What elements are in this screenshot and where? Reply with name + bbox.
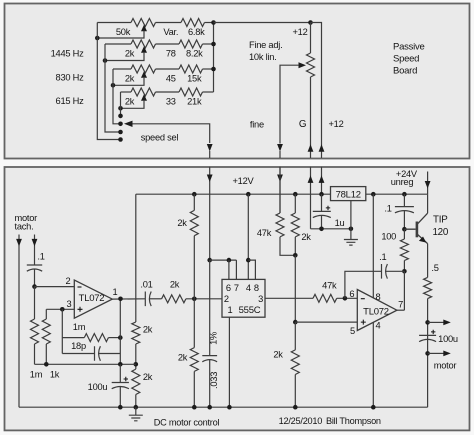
- node switch contact row1: [118, 137, 123, 142]
- wire row4 left end: [121, 91, 132, 93]
- wire fine line through rail to 47k: [279, 167, 281, 213]
- node pin3 feedback tap: [60, 307, 65, 312]
- wire 100u top lead: [119, 364, 121, 382]
- svg-text:830 Hz: 830 Hz: [56, 73, 85, 83]
- svg-text:.033: .033: [209, 372, 219, 389]
- svg-text:615 Hz: 615 Hz: [56, 96, 85, 106]
- node pot top: [308, 20, 313, 25]
- svg-text:33: 33: [166, 97, 176, 107]
- wire tach signal line: [34, 235, 36, 266]
- capacitor .033 timing: [202, 356, 217, 362]
- svg-text:2k: 2k: [177, 218, 187, 228]
- wire 2k pull-down bottom: [193, 371, 195, 407]
- node row4 wiper joins left end: [118, 106, 123, 111]
- svg-text:2k: 2k: [143, 324, 153, 334]
- potentiometer row1 wiper arrow: [141, 25, 147, 32]
- wire G from pot bottom: [310, 77, 312, 158]
- svg-text:.1: .1: [379, 252, 386, 262]
- wire ground link line: [311, 228, 351, 230]
- svg-text:TL072: TL072: [363, 306, 389, 317]
- svg-text:2k: 2k: [273, 350, 283, 360]
- svg-text:2k: 2k: [125, 49, 135, 59]
- wire output down stub to lower node: [119, 299, 121, 365]
- svg-text:100u: 100u: [88, 382, 108, 392]
- svg-text:1m: 1m: [30, 369, 43, 379]
- node pins 4/8 link: [246, 258, 251, 263]
- wire node down to pin5 line: [294, 255, 296, 322]
- node rail at 2k pullup: [192, 192, 197, 197]
- node 78L12 gnd at ground link: [349, 227, 354, 232]
- svg-text:47k: 47k: [322, 280, 337, 290]
- op-amp2 plus sign: [361, 320, 366, 325]
- wire lower node line: [35, 363, 136, 365]
- wire right bus joining all rows: [213, 23, 215, 93]
- wire 78L12 gnd pin: [350, 201, 352, 229]
- arrow fine into lower board: [277, 175, 283, 183]
- svg-text:6: 6: [226, 283, 231, 293]
- arrow motor + out: [443, 320, 451, 326]
- wire 555 pin3 out: [265, 297, 313, 299]
- node output stub at lower line: [118, 362, 123, 367]
- wire speed-sel into lower board: [209, 167, 211, 260]
- wire 1k top: [45, 309, 47, 319]
- wire 1m feedback right lead: [108, 337, 120, 339]
- wire 1m top: [34, 287, 36, 319]
- wire 2k pull-up bottom: [193, 236, 195, 299]
- svg-text:1k: 1k: [50, 369, 60, 379]
- node gnd main ground: [134, 405, 139, 410]
- svg-text:555C: 555C: [239, 305, 261, 316]
- arrow tach ground input: [16, 239, 22, 247]
- node 47k/2k junction: [293, 253, 298, 258]
- potentiometer 10k fine adj: [307, 53, 315, 77]
- wire row3 right end: [203, 68, 214, 70]
- svg-text:21k: 21k: [187, 97, 202, 107]
- wire .1 top lead: [403, 194, 405, 206]
- node pin5 tap: [293, 320, 298, 325]
- resistor 47k series: [313, 294, 337, 302]
- wire 2k to 555 pin2: [186, 298, 222, 300]
- svg-text:8.2k: 8.2k: [186, 49, 203, 59]
- svg-text:+12: +12: [328, 119, 343, 129]
- resistor 1m feedback: [84, 334, 108, 342]
- wire motor - tap: [428, 352, 444, 354]
- wire row4 middle segment: [156, 91, 180, 93]
- wire row1 left end: [97, 22, 131, 24]
- node bus row1: [211, 20, 216, 25]
- node speed-sel at pins 6/7 link: [207, 258, 212, 263]
- wire left divider bottom: [135, 395, 137, 408]
- svg-text:3: 3: [67, 299, 72, 309]
- svg-text:7: 7: [398, 299, 403, 309]
- node gnd 2k pin5: [293, 405, 298, 410]
- node bus row3: [211, 67, 216, 72]
- svg-text:5: 5: [350, 326, 355, 336]
- plus mark of 1u: [326, 206, 330, 210]
- svg-text:Board: Board: [393, 66, 417, 77]
- wire 78L12 input from +24V: [366, 193, 428, 195]
- svg-text:.1: .1: [37, 251, 44, 261]
- resistor 2k from rail: [291, 213, 299, 237]
- wire row1 middle segment: [156, 22, 182, 24]
- wire .033 bottom: [209, 360, 211, 407]
- svg-text:+12: +12: [292, 27, 307, 37]
- capacitor 100u (op-amp1 ground net): [112, 383, 129, 389]
- resistor 47k from fine: [276, 213, 284, 237]
- wire 555 pin1 to ground: [228, 317, 230, 407]
- node +24 at output chain: [402, 192, 407, 197]
- svg-text:fine: fine: [250, 119, 264, 129]
- wire 2k below pin5 top: [294, 322, 296, 350]
- wire fine to board edge: [279, 151, 281, 158]
- switch speed-sel wiper arrow: [124, 121, 133, 127]
- node rail at 555 pins 4/8: [246, 192, 251, 197]
- transistor Q1 TIP120 base bar: [416, 222, 419, 238]
- wire 47k to pin6 of op-amp2: [337, 297, 358, 299]
- wire row4 right end: [203, 91, 214, 93]
- node gnd 555 pin1: [227, 405, 232, 410]
- arrow G up to upper board: [308, 175, 314, 183]
- node transistor base: [402, 227, 407, 232]
- svg-text:.01: .01: [140, 279, 152, 289]
- arrow fine leaving board (down): [277, 144, 283, 152]
- node motor -: [425, 351, 430, 356]
- arrow fine-adj wiper: [299, 62, 307, 68]
- resistor 2k upper of left divider: [132, 322, 140, 344]
- wire .01 to 2k: [149, 298, 161, 300]
- node switch contact row4: [118, 114, 123, 119]
- wire pin3 input: [46, 308, 74, 310]
- node row2 wiper joins left end: [103, 58, 108, 63]
- svg-text:3: 3: [258, 294, 263, 304]
- svg-text:7: 7: [234, 283, 239, 293]
- node switch contact row2: [118, 130, 123, 135]
- svg-text:+12V: +12V: [233, 176, 255, 186]
- wire row2 vertical to switch contact: [105, 44, 121, 132]
- wire op-amp2 pin4 to ground: [372, 322, 374, 407]
- wire left divider mid: [135, 344, 137, 369]
- node 1u at ground link: [319, 227, 324, 232]
- wire row4 wiper stem: [121, 100, 145, 108]
- node motor +: [425, 320, 430, 325]
- wire 1m feedback left lead: [62, 337, 84, 339]
- resistor 2k lower of left divider: [132, 369, 140, 394]
- svg-text:6: 6: [349, 289, 354, 299]
- resistor 2k below pin5: [291, 350, 299, 375]
- wire 2k pull-up top: [193, 194, 195, 210]
- wire fine into lower board: [279, 167, 281, 213]
- wire fine wiper to fine line: [280, 65, 299, 143]
- svg-text:2k: 2k: [125, 97, 135, 107]
- wire 2k bottom to node: [294, 237, 296, 255]
- node rail at +12 line: [319, 192, 324, 197]
- op-amp1 plus sign: [78, 307, 83, 312]
- wire .033 line down: [209, 260, 211, 356]
- svg-text:8: 8: [254, 283, 259, 293]
- wire feedback from pin6 up: [345, 271, 382, 298]
- svg-text:1u: 1u: [335, 218, 345, 228]
- node bus row2: [211, 42, 216, 47]
- svg-text:100u: 100u: [438, 334, 458, 344]
- svg-text:2k: 2k: [301, 232, 311, 242]
- regulator U3 78L12: [331, 187, 366, 201]
- wire +12 right segment to border: [321, 144, 323, 158]
- arrow +12 entering board (up): [319, 144, 325, 152]
- wire ground rail: [19, 406, 428, 408]
- resistor 15k row3: [179, 65, 203, 73]
- wire pin8 link: [248, 260, 255, 279]
- op-amp2 minus sign: [361, 298, 365, 300]
- wire collector to +24: [427, 194, 429, 213]
- node op-amp1 output: [118, 297, 123, 302]
- svg-text:speed sel: speed sel: [141, 133, 179, 143]
- svg-text:2k: 2k: [143, 372, 153, 382]
- svg-text:8: 8: [375, 292, 380, 302]
- wire row4 vertical to switch contact: [120, 92, 122, 116]
- wire pin2 input to op-amp1: [35, 286, 75, 288]
- node op-amp2 pin6: [343, 296, 348, 301]
- op-amp U1B TL072: [357, 290, 397, 331]
- wire 2k top to rail: [294, 194, 296, 213]
- arrow speed-sel leaving board (down): [207, 144, 213, 152]
- node 555 pin2 divider: [192, 297, 197, 302]
- resistor 1m to ground net: [31, 319, 39, 344]
- capacitor .1 feedback: [382, 264, 388, 279]
- resistor 100 base: [400, 239, 408, 261]
- svg-text:15k: 15k: [187, 74, 202, 84]
- svg-text:TIP: TIP: [433, 215, 448, 226]
- node switch contact row3: [118, 122, 123, 127]
- svg-text:2: 2: [224, 294, 229, 304]
- node feedback .1 tap: [402, 269, 407, 274]
- wire row1 vertical to switch contact: [97, 23, 120, 140]
- node row1 wiper joins left end: [95, 36, 100, 41]
- svg-text:78L12: 78L12: [336, 190, 361, 201]
- node row3 wiper joins left end: [111, 83, 116, 88]
- op-amp U1A TL072: [74, 280, 112, 318]
- node gnd 100u left: [118, 405, 123, 410]
- wire feedback left stub: [61, 309, 63, 353]
- wire row3 middle segment: [156, 68, 180, 70]
- arrow speed-sel into lower board: [207, 175, 213, 183]
- wire 18p left lead: [62, 353, 94, 355]
- capacitor 1u regulator output: [313, 211, 331, 217]
- wire pin5 line: [295, 321, 357, 323]
- svg-text:.1: .1: [384, 204, 391, 214]
- svg-text:.5: .5: [431, 263, 438, 273]
- svg-text:2k: 2k: [170, 279, 180, 289]
- wire +24V entry: [427, 172, 429, 195]
- wire row2 right end: [203, 43, 214, 45]
- wire tach ground line: [18, 235, 20, 408]
- op-amp1 minus sign: [78, 286, 82, 288]
- potentiometer row4 (2k pot element): [131, 88, 156, 96]
- wire row1 wiper stem: [97, 31, 144, 39]
- wire pin6 stub: [228, 260, 230, 279]
- svg-text:2k: 2k: [178, 352, 188, 362]
- wire 1k bottom: [45, 344, 47, 364]
- svg-text:1445 Hz: 1445 Hz: [51, 49, 84, 59]
- svg-text:Speed: Speed: [393, 54, 419, 65]
- wire pot top stub: [310, 23, 312, 54]
- potentiometer row3 (2k pot element): [131, 65, 156, 73]
- wire 100 bottom: [403, 261, 405, 272]
- wire motor + tap: [428, 321, 444, 323]
- svg-text:18p: 18p: [71, 341, 86, 351]
- node gnd .033: [207, 405, 212, 410]
- svg-text:unreg: unreg: [391, 177, 414, 187]
- wire .5 to motor node: [427, 299, 429, 408]
- svg-text:120: 120: [432, 227, 448, 238]
- wire rail corner down-left vertical: [135, 194, 137, 322]
- wire op-amp1 output: [112, 298, 145, 300]
- wire .1 bottom lead: [403, 211, 405, 229]
- resistor 2k pull-up (555 pin2): [190, 210, 198, 235]
- potentiometer row4 wiper arrow: [141, 94, 147, 101]
- svg-text:Passive: Passive: [393, 42, 425, 53]
- svg-text:2: 2: [66, 276, 71, 286]
- capacitor 100u motor: [419, 335, 436, 341]
- wire 2k pull-down top: [193, 299, 195, 348]
- svg-text:motor: motor: [434, 361, 457, 371]
- svg-text:10k lin.: 10k lin.: [249, 52, 276, 62]
- wire 1u top lead: [321, 194, 323, 211]
- svg-text:100: 100: [381, 232, 396, 242]
- ground symbol 78L12: [344, 229, 358, 245]
- wire pin7 stub: [235, 260, 237, 279]
- capacitor 18p feedback: [95, 346, 101, 361]
- wire output vertical to pin7: [403, 271, 405, 310]
- capacitor .1 at +24V: [395, 207, 414, 213]
- arrow motor - out: [443, 351, 451, 357]
- svg-text:Var.: Var.: [163, 27, 178, 37]
- arrow G entering board (up): [308, 144, 314, 152]
- node op-amp1 pin2 input: [32, 284, 37, 289]
- wire +12 top line from bus to pot: [214, 22, 311, 24]
- wire +12V rail: [136, 193, 331, 195]
- svg-text:12/25/2010: 12/25/2010: [279, 416, 323, 426]
- wire feedback cap to output: [385, 270, 404, 272]
- resistor 21k row4: [179, 88, 203, 96]
- svg-text:2k: 2k: [125, 74, 135, 84]
- transistor Q1 base/collector/emitter leads: [404, 213, 427, 243]
- node rail at 2k (pin5 divider): [293, 192, 298, 197]
- resistor .5 emitter: [424, 277, 432, 298]
- wire speed-sel output: [133, 124, 210, 143]
- timer U2 555C: [222, 279, 265, 317]
- wire row2 left end: [105, 43, 131, 45]
- board outline: DC motor control box: [5, 167, 470, 430]
- svg-text:6.8k: 6.8k: [188, 27, 205, 37]
- svg-text:Bill Thompson: Bill Thompson: [326, 416, 381, 426]
- arrow +12 up to upper board: [319, 175, 325, 183]
- wire op-amp2 output: [397, 309, 405, 311]
- wire row3 wiper stem: [113, 77, 144, 85]
- wire G into lower board: [310, 167, 312, 229]
- wire 2k below pin5 bottom: [294, 375, 296, 408]
- svg-text:78: 78: [166, 49, 176, 59]
- wire row2 middle segment: [156, 43, 180, 45]
- wire emitter down: [427, 244, 429, 278]
- wire speed-sel to board edge: [209, 151, 211, 158]
- svg-text:1: 1: [228, 305, 233, 315]
- svg-text:DC motor control: DC motor control: [154, 418, 220, 428]
- resistor 1k to ground net: [42, 319, 50, 344]
- board outline: Passive Speed Board box: [5, 4, 470, 159]
- wire pins 6-7 link: [210, 259, 237, 261]
- node gnd op-amp2 pin4: [371, 405, 376, 410]
- svg-text:45: 45: [166, 74, 176, 84]
- transistor emitter arrow: [419, 237, 426, 243]
- wire 47k bottom to node: [280, 237, 295, 255]
- wire 100u bottom lead: [119, 387, 121, 408]
- svg-text:G: G: [299, 119, 306, 130]
- plus mark of motor 100u: [431, 330, 435, 334]
- node feedback right: [118, 335, 123, 340]
- resistor 2k pull-down (555 pin2): [190, 348, 198, 372]
- potentiometer row1 (50k pot element): [131, 19, 156, 27]
- resistor 2k series to 555 pin2: [162, 295, 186, 303]
- potentiometer row2 wiper arrow: [141, 46, 147, 53]
- svg-text:1m: 1m: [73, 322, 86, 332]
- wire 100 top: [403, 229, 405, 239]
- svg-text:4: 4: [246, 283, 251, 293]
- wire cap to pin2 node: [34, 269, 36, 286]
- svg-text:tach.: tach.: [15, 222, 34, 232]
- node gnd 2k pulldown: [192, 405, 197, 410]
- wire 1m bottom: [34, 344, 36, 364]
- arrow +24V entry (down): [425, 181, 431, 189]
- svg-text:TL072: TL072: [79, 293, 105, 304]
- wire row3 vertical to switch contact: [113, 69, 121, 124]
- svg-text:1%: 1%: [209, 332, 219, 345]
- node pin6 top: [227, 258, 232, 263]
- ground symbol main: [129, 407, 143, 421]
- wire +12 into lower board: [321, 167, 323, 194]
- wire row1 right end: [205, 22, 214, 24]
- resistor 6.8k row1: [181, 19, 205, 27]
- wire row3 left end: [113, 68, 131, 70]
- resistor 8.2k row2: [179, 40, 203, 48]
- capacitor .1 tach input: [27, 265, 42, 271]
- wire top line to +12 corner: [311, 23, 322, 145]
- wire pin4 line to rail: [247, 194, 249, 279]
- svg-text:Fine adj.: Fine adj.: [249, 40, 282, 50]
- svg-text:4: 4: [375, 321, 380, 331]
- svg-text:1: 1: [113, 287, 118, 297]
- wire 18p right lead: [98, 353, 120, 355]
- node left divider middle: [134, 362, 139, 367]
- potentiometer row3 wiper arrow: [141, 71, 147, 78]
- wire 1u bottom lead: [321, 216, 323, 229]
- plus mark of 100u left: [124, 377, 128, 381]
- potentiometer row2 (2k pot element): [131, 40, 156, 48]
- svg-text:50k: 50k: [116, 27, 131, 37]
- wire row2 wiper stem: [105, 52, 144, 61]
- node +24 at op-amp2 supply: [371, 192, 376, 197]
- capacitor .01 coupling: [145, 292, 151, 307]
- svg-text:47k: 47k: [257, 228, 272, 238]
- node 1k bottom: [44, 362, 49, 367]
- wire op-amp2 pin8 supply: [372, 194, 374, 298]
- arrow tach signal input: [32, 239, 38, 247]
